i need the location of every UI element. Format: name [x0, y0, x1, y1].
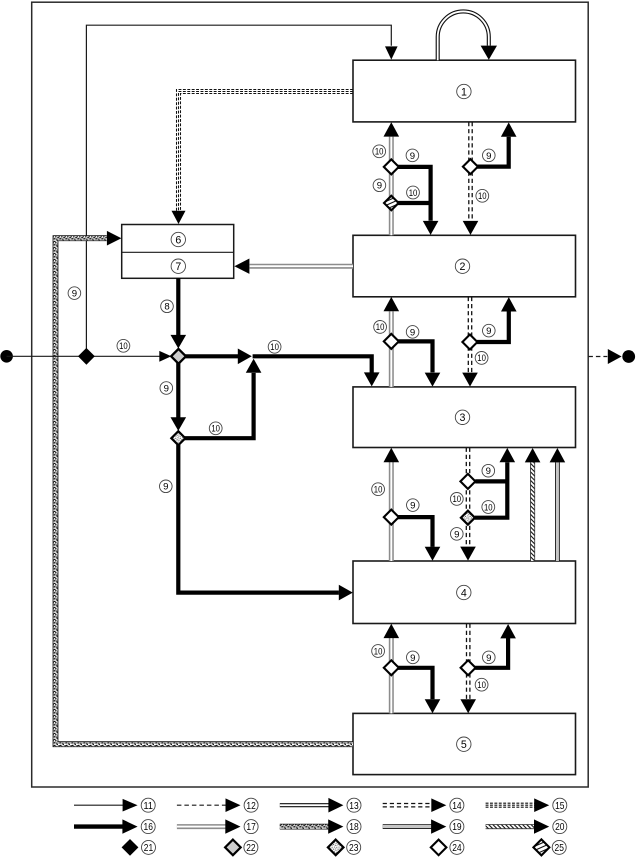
svg-text:10: 10	[211, 424, 220, 434]
svg-text:9: 9	[486, 466, 491, 477]
state box 1	[353, 60, 576, 122]
state box 5	[353, 713, 576, 774]
wire: gray band line box4 top up into box 3 bottom (style 19)	[555, 462, 560, 561]
wire: thick branch down into box 3 top (label 9)	[398, 341, 433, 372]
svg-text:9: 9	[377, 181, 382, 192]
label 10	[482, 501, 495, 514]
svg-text:2: 2	[460, 261, 466, 273]
wire: thin entry line from bullet to gray diamond	[7, 355, 160, 357]
legend item 14: double-dashed arrow	[383, 803, 433, 805]
wire: thick branches right and up into box 3 bottom (labels 9,10)	[475, 462, 508, 518]
exit bullet node	[622, 350, 635, 363]
svg-text:9: 9	[163, 482, 168, 493]
svg-text:21: 21	[144, 843, 154, 854]
state box 4	[353, 561, 576, 624]
svg-text:12: 12	[246, 801, 256, 812]
svg-text:9: 9	[454, 529, 459, 540]
label 9	[160, 480, 173, 493]
svg-text:9: 9	[410, 653, 415, 664]
node: white diamond (style 24)	[463, 159, 478, 174]
wire: thick line gray diamond to right junction (label 10)	[185, 354, 239, 358]
label 5	[457, 737, 471, 751]
svg-text:9: 9	[486, 653, 491, 664]
label 9	[68, 287, 81, 300]
svg-text:10: 10	[453, 494, 462, 504]
svg-text:10: 10	[477, 353, 486, 363]
svg-text:10: 10	[374, 646, 383, 656]
label 4	[457, 585, 471, 599]
svg-text:9: 9	[410, 501, 415, 512]
svg-text:10: 10	[376, 322, 385, 332]
wire: thick branch down into box 4 top (label 9)	[398, 517, 433, 547]
node: white diamond (style 24)	[384, 159, 399, 174]
node: gray diamond junction (style 22)	[171, 349, 186, 364]
wire: thick line gray diamond down to small diamond (label 9)	[176, 363, 180, 418]
node: black diamond junction (style 21)	[79, 349, 94, 364]
label 10	[268, 340, 281, 353]
legend item 12: dashed arrow	[177, 804, 227, 806]
svg-text:15: 15	[555, 801, 565, 812]
label 9	[451, 528, 464, 541]
label 9	[482, 464, 495, 477]
node: white diamond (style 24)	[384, 660, 399, 675]
svg-text:24: 24	[452, 843, 462, 854]
node: speckled diamond junction (style 23)	[171, 431, 185, 445]
svg-text:9: 9	[410, 151, 415, 162]
wire: thick branch right up into box 2 bottom (label 9)	[477, 311, 509, 342]
label 10	[475, 678, 488, 691]
svg-text:18: 18	[349, 822, 359, 833]
svg-text:13: 13	[349, 801, 359, 812]
wire: double-dashed channel box1 bottom down into box 2 top (label 10)	[468, 122, 470, 221]
svg-text:7: 7	[175, 261, 181, 273]
node: white diamond (style 24)	[462, 335, 477, 350]
wire: thin line from node junction up-left over to box 1 top (style 11)	[86, 25, 391, 349]
svg-text:10: 10	[477, 680, 486, 690]
label 9	[406, 326, 419, 339]
legend item 22: gray diamond	[225, 840, 241, 856]
legend item 20: hatched band arrow	[486, 824, 536, 829]
label 10	[407, 186, 420, 199]
label 10	[372, 483, 385, 496]
svg-text:14: 14	[452, 801, 462, 812]
svg-text:9: 9	[72, 289, 77, 300]
wire: dashed exit line through right border (style 12)	[588, 356, 607, 358]
entry bullet node	[0, 350, 13, 363]
wire: triple-dashed line from box 1 left edge to box 6 top (style 15)	[177, 90, 354, 212]
state box 3	[353, 387, 576, 448]
legend item 15: triple-dashed arrow	[486, 802, 536, 804]
box 6/7 (two-cell box)	[122, 225, 234, 279]
label 10	[372, 645, 385, 658]
wire: gray double channel box2 top up into box 1 bottom (label 10)	[389, 137, 394, 236]
label 6	[171, 232, 185, 246]
svg-text:10: 10	[374, 484, 383, 494]
label 2	[455, 259, 469, 273]
svg-text:22: 22	[246, 843, 256, 854]
wire: gray double channel box4 top up into box 3 bottom (label 10)	[389, 462, 394, 561]
svg-text:23: 23	[349, 843, 359, 854]
wire: thick branches from diamonds down into box 2 top (labels 9,10)	[397, 167, 430, 221]
node: white diamond (style 24)	[384, 334, 399, 349]
svg-text:10: 10	[375, 147, 384, 157]
svg-text:19: 19	[452, 822, 462, 833]
legend item 16: thick solid arrow	[74, 824, 124, 828]
legend item 18: textured band arrow	[280, 824, 330, 830]
wire: thick line junction right into box 3 top (label 10)	[253, 356, 372, 372]
wire: thick branch small diamond right and up to junction (label 10)	[185, 373, 254, 438]
svg-text:9: 9	[486, 326, 491, 337]
svg-text:10: 10	[409, 188, 418, 198]
label 9	[483, 149, 496, 162]
svg-text:17: 17	[246, 822, 256, 833]
label 3	[455, 410, 469, 424]
label 9	[407, 499, 420, 512]
label 9	[160, 382, 173, 395]
svg-text:20: 20	[555, 822, 565, 833]
label 9	[373, 179, 386, 192]
legend item 17: gray double-line arrow	[177, 824, 227, 829]
state box 2	[353, 235, 576, 296]
svg-text:9: 9	[410, 327, 415, 338]
legend item 19: gray band arrow	[383, 824, 433, 829]
label 10	[475, 352, 488, 365]
svg-text:9: 9	[486, 151, 491, 162]
svg-text:10: 10	[478, 191, 487, 201]
wire: gray double channel box5 top up into box 4 bottom (label 10)	[389, 638, 394, 714]
svg-text:11: 11	[144, 801, 154, 812]
svg-text:10: 10	[484, 502, 493, 512]
label 8	[161, 300, 174, 313]
svg-text:4: 4	[461, 587, 467, 599]
label 9	[483, 324, 496, 337]
svg-text:10: 10	[119, 341, 128, 351]
node: speckled diamond (style 23)	[461, 511, 475, 525]
svg-text:5: 5	[461, 739, 467, 751]
wire: self-loop double-line arc on box 1 top (style 13)	[438, 11, 489, 60]
svg-text:10: 10	[270, 342, 279, 352]
wire: thick branch down into box 5 top (label 9)	[398, 668, 433, 700]
svg-text:1: 1	[461, 86, 467, 98]
wire: thick line small diamond down and right into box 4 left (label 9)	[178, 445, 339, 593]
svg-text:16: 16	[144, 822, 154, 833]
wire: gray double line from box 2 left edge into box 7 (style 17)	[250, 264, 353, 269]
svg-text:9: 9	[164, 383, 169, 394]
wire: thick branch right up into box 1 bottom (label 9)	[477, 137, 509, 167]
legend item 23: speckled diamond	[328, 840, 344, 856]
legend item 11: thin solid arrow	[74, 804, 124, 806]
wire 8: thick line from box 7 bottom down to gray diamond	[176, 278, 180, 335]
wire: gray double channel box3 top up into box 2 bottom (label 10)	[389, 311, 394, 387]
node: white diamond (style 24)	[384, 510, 399, 525]
svg-text:25: 25	[555, 843, 565, 854]
label 10	[209, 422, 222, 435]
legend item 24: white diamond	[431, 840, 447, 856]
legend item 21: black diamond	[122, 840, 137, 855]
svg-text:8: 8	[164, 302, 169, 313]
node: white diamond (style 24)	[460, 474, 475, 489]
svg-text:3: 3	[460, 412, 466, 424]
label 10	[476, 189, 489, 202]
label 7	[171, 259, 185, 273]
wire: double-dashed channel box3 bottom down into box 4 top (labels 10,9)	[465, 448, 467, 547]
node: white diamond (style 24)	[461, 660, 476, 675]
wire: double-dashed channel box2 bottom down into box 3 top (label 10)	[467, 297, 469, 372]
wire: textured feedback line from box 5 left around to box 6 left (style 18)	[56, 238, 354, 744]
label 10	[373, 145, 386, 158]
svg-text:6: 6	[175, 234, 181, 246]
label 9	[407, 651, 420, 664]
label 1	[457, 84, 471, 98]
wire: double-dashed channel box4 bottom down into box 5 top (label 10)	[466, 624, 468, 699]
legend item 13: double-line arrow	[280, 803, 330, 807]
label 9	[406, 149, 419, 162]
wire: thick branch right up into box 4 bottom (label 9)	[475, 638, 508, 668]
label 10	[117, 339, 130, 352]
wire: hatched line box4 top up into box 3 bottom (style 20)	[530, 462, 535, 561]
label 10	[450, 493, 463, 506]
label 9	[483, 651, 496, 664]
label 10	[374, 321, 387, 334]
